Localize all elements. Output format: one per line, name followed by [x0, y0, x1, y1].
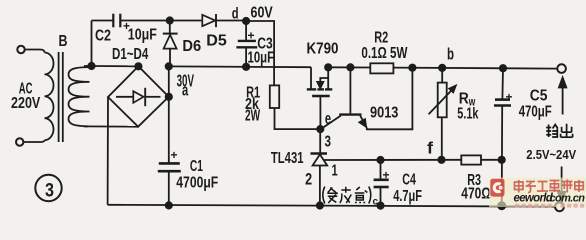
- node secondary top junction: [88, 63, 94, 69]
- node f: [438, 157, 444, 163]
- watermark slogan tiny: [515, 204, 584, 208]
- svg-text:+: +: [171, 148, 178, 162]
- svg-text:4700μF: 4700μF: [176, 175, 218, 192]
- svg-text:B: B: [59, 33, 68, 50]
- wire AC bottom from primary: [24, 140, 45, 142]
- terminal AC bottom: [16, 138, 23, 145]
- svg-text:D5: D5: [206, 33, 227, 50]
- watermark background: [489, 178, 586, 208]
- symbol circled 3: [35, 175, 61, 201]
- arrow output up: [559, 78, 566, 115]
- wire secondary bottom to bridge bottom corner: [84, 125, 138, 127]
- diode D5: [202, 14, 246, 27]
- svg-text:.com.cn: .com.cn: [547, 193, 585, 205]
- svg-text:C1: C1: [190, 158, 203, 175]
- wire rail K790 to R2: [328, 66, 370, 68]
- svg-text:470μF: 470μF: [519, 104, 552, 121]
- node e junction: [317, 126, 323, 132]
- svg-text:+: +: [506, 90, 513, 104]
- bridge rectifier D1-D4 diamond: [108, 66, 169, 126]
- wire node to bridge top corner: [92, 65, 139, 67]
- node C5 riser ground: [498, 202, 505, 209]
- wire 9013 emitter to rail after R2: [367, 68, 413, 130]
- node C3 bottom on rail: [243, 64, 249, 70]
- svg-text:+: +: [383, 168, 390, 182]
- wire ground rail: [108, 205, 555, 207]
- svg-text:10μF: 10μF: [248, 50, 275, 67]
- wire left riser bridge to ground: [107, 97, 109, 205]
- svg-text:+: +: [248, 29, 255, 43]
- svg-text:d: d: [232, 6, 239, 23]
- potentiometer Rw: [429, 68, 456, 160]
- transformer B primary winding: [45, 53, 54, 141]
- wire secondary top to node: [84, 65, 92, 67]
- svg-text:2: 2: [305, 170, 312, 189]
- svg-text:4.7μF: 4.7μF: [393, 188, 422, 205]
- capacitor C5: [494, 68, 511, 206]
- wire AC top to primary: [25, 50, 45, 53]
- svg-text:D6: D6: [182, 38, 201, 55]
- svg-text:3: 3: [325, 133, 332, 150]
- capacitor C2: [113, 14, 120, 28]
- svg-text:5.1k: 5.1k: [457, 106, 478, 123]
- wire main rail D6 junction to K790 drain: [169, 65, 311, 68]
- transistor Q1 K790 mosfet: [307, 67, 333, 129]
- node bridge right corner: [166, 94, 172, 100]
- svg-text:60V: 60V: [251, 5, 273, 22]
- svg-text:10μF: 10μF: [128, 27, 157, 44]
- capacitor C1: [158, 97, 181, 206]
- svg-text:C4: C4: [402, 172, 416, 189]
- node bridge top corner: [135, 63, 141, 69]
- wire top rail left: [92, 20, 113, 22]
- svg-text:a: a: [182, 82, 189, 100]
- wire 60V corner to R1: [246, 21, 274, 85]
- node D6 anode junction: [166, 63, 172, 69]
- svg-text:D1~D4: D1~D4: [112, 46, 148, 63]
- svg-text:b: b: [447, 46, 454, 64]
- wire rail R2 to output terminal: [393, 68, 557, 69]
- label cankaodian reference point CJK: [323, 187, 371, 204]
- resistor R1: [270, 85, 279, 108]
- wire C2 riser: [91, 21, 93, 67]
- svg-text:c: c: [373, 197, 379, 208]
- node pump junction: [167, 17, 173, 23]
- terminal output minus: [555, 202, 564, 211]
- transformer secondary winding: [69, 66, 92, 126]
- watermark title CJK: [515, 180, 584, 193]
- wire C2 to pump node: [121, 20, 202, 22]
- watermark url: [514, 193, 586, 205]
- label shuchu output CJK: [546, 124, 572, 137]
- capacitor C3: [236, 21, 257, 67]
- node K790 source on rail: [325, 64, 331, 70]
- watermark eeworld: [489, 178, 586, 208]
- node TL431 anode ground: [317, 202, 323, 208]
- svg-text:470Ω: 470Ω: [461, 186, 491, 203]
- bridge inner diode: [116, 88, 161, 106]
- transistor Q2 9013: [322, 67, 367, 128]
- svg-text:K790: K790: [307, 41, 339, 58]
- node C5 top: [500, 65, 506, 71]
- terminal output plus: [557, 64, 566, 73]
- watermark logo: [490, 179, 504, 197]
- svg-text:C2: C2: [95, 28, 111, 45]
- svg-text:2.5V~24V: 2.5V~24V: [526, 147, 576, 162]
- svg-text:e: e: [325, 110, 331, 128]
- node C4 top: [377, 157, 383, 163]
- node 9013 base tap: [347, 64, 353, 70]
- svg-text:f: f: [427, 140, 434, 158]
- capacitor C4: [374, 160, 389, 206]
- svg-text:3: 3: [45, 180, 54, 202]
- node b: [439, 65, 445, 71]
- wire R1 bottom to node e: [275, 108, 321, 129]
- svg-text:TL431: TL431: [271, 150, 304, 167]
- svg-text:C5: C5: [530, 88, 548, 105]
- wire bridge right riser: [168, 66, 170, 96]
- node C4 ground: [377, 202, 383, 208]
- svg-text:1: 1: [332, 163, 338, 180]
- regulator U1 TL431: [311, 129, 328, 205]
- transformer core: [59, 52, 63, 142]
- node d: [243, 18, 249, 24]
- node R3 right on C5 riser: [499, 157, 505, 163]
- node C1 ground: [166, 202, 172, 208]
- diode D6: [163, 21, 178, 67]
- svg-text:0.1Ω 5W: 0.1Ω 5W: [361, 45, 408, 62]
- node emitter riser on rail: [409, 65, 415, 71]
- resistor R3: [461, 155, 501, 164]
- resistor R2: [370, 63, 393, 73]
- arrow output down: [558, 167, 565, 202]
- terminal AC top: [17, 46, 24, 53]
- svg-text:220V: 220V: [11, 95, 41, 112]
- wire TL431 ref to node f and R3: [324, 159, 462, 161]
- svg-text:9013: 9013: [370, 105, 398, 122]
- svg-text:2W: 2W: [245, 108, 261, 125]
